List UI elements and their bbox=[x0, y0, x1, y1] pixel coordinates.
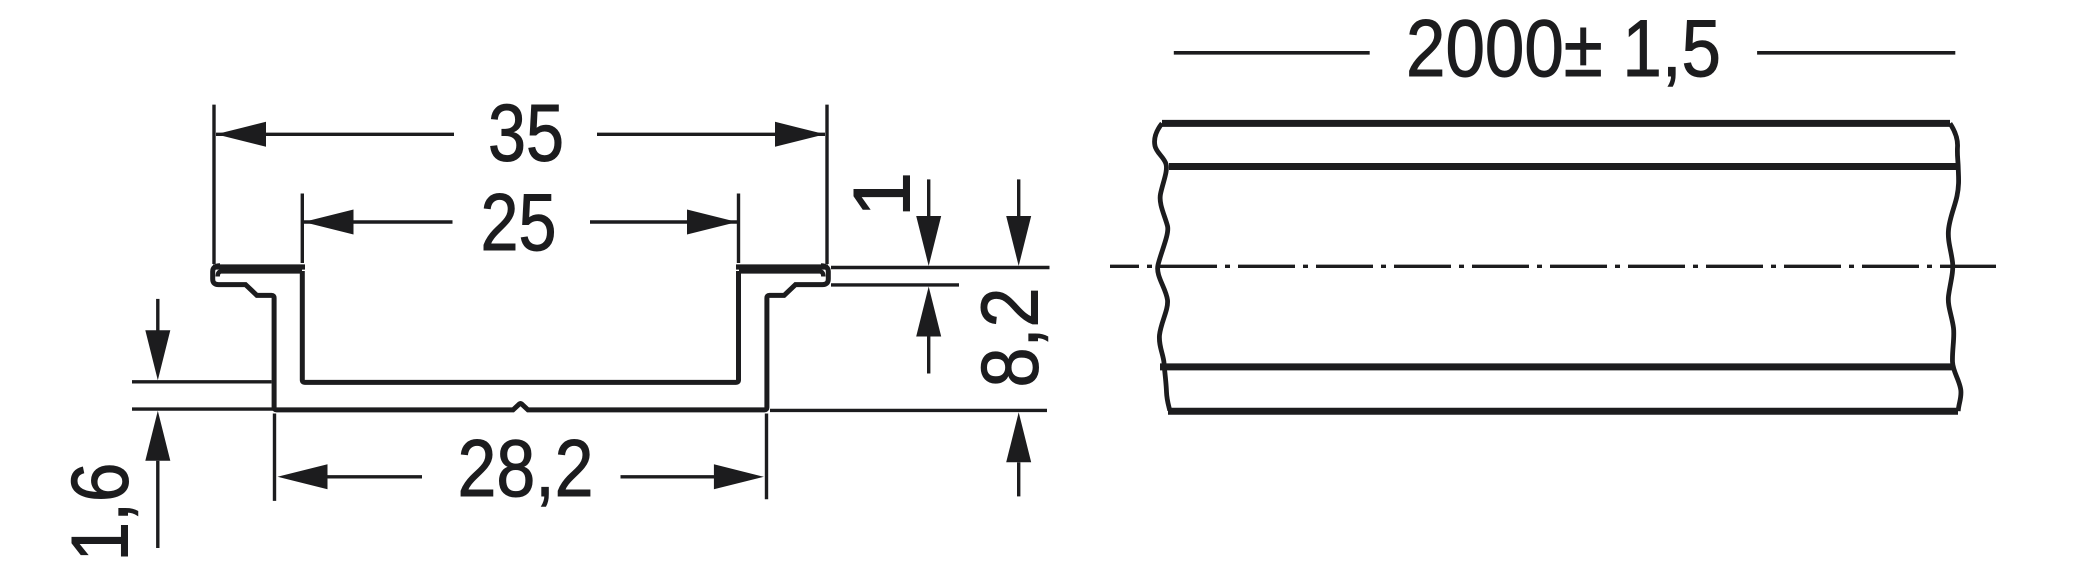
dim 25: dimension line bbox=[304, 220, 453, 223]
dim 28,2: extension lines bbox=[273, 414, 276, 501]
svg-text:1,6: 1,6 bbox=[56, 463, 146, 562]
rail profile: left flange top surface bbox=[213, 264, 305, 269]
side view: bottom edge bbox=[1168, 408, 1958, 415]
dim 1,6: upper arrow (points down) bbox=[156, 299, 159, 331]
dim 8,2: upper arrow (points down) bbox=[1017, 179, 1020, 216]
rail profile: inner contour (webs + channel bottom) bbox=[302, 271, 738, 382]
side view: dash-dot centerline bbox=[1110, 265, 1996, 268]
dim 1: bottom extension line bbox=[831, 283, 959, 286]
dim 28,2: arrows bbox=[278, 464, 328, 489]
dim 1,6: extension lines bbox=[132, 380, 272, 383]
dim 1: top extension line (shared with 8,2) bbox=[831, 266, 1050, 269]
rail profile: outer contour (curls, hook verticals, bottom with center notch) bbox=[213, 266, 829, 410]
dim 25: arrows bbox=[304, 210, 354, 235]
dim 35: extension lines bbox=[212, 105, 215, 264]
side view: upper inner line bbox=[1169, 163, 1958, 170]
dim 28,2: dimension line bbox=[328, 475, 423, 478]
dim 1: upper arrow (points down) bbox=[927, 179, 930, 216]
svg-text:35: 35 bbox=[488, 89, 564, 179]
side view: top edge bbox=[1162, 120, 1950, 127]
side view: left break line (wavy) bbox=[1155, 123, 1170, 410]
side view: right break line (wavy) bbox=[1948, 123, 1961, 411]
svg-text:8,2: 8,2 bbox=[966, 288, 1056, 388]
svg-text:25: 25 bbox=[481, 178, 557, 268]
svg-text:2000± 1,5: 2000± 1,5 bbox=[1406, 4, 1721, 94]
dim 35: arrows bbox=[216, 122, 266, 147]
svg-text:28,2: 28,2 bbox=[458, 424, 594, 514]
svg-text:1: 1 bbox=[838, 172, 928, 217]
dim 35: dimension line bbox=[216, 133, 454, 136]
dim 1: lower arrow (points up) bbox=[916, 287, 941, 337]
dim 8,2: lower arrow (points up) bbox=[1006, 412, 1031, 462]
dim 1,6: lower arrow (points up) bbox=[145, 411, 170, 461]
rail profile: right flange top surface bbox=[736, 264, 828, 269]
dim 2000±1,5: flanking lines bbox=[1174, 51, 1370, 55]
rail profile: left flange inner surface bbox=[218, 271, 302, 276]
dim 25: extension lines bbox=[301, 194, 304, 264]
rail profile: right flange inner surface bbox=[739, 271, 823, 276]
dim 8,2: bottom extension line bbox=[770, 409, 1047, 412]
side view: lower inner line bbox=[1160, 363, 1952, 370]
